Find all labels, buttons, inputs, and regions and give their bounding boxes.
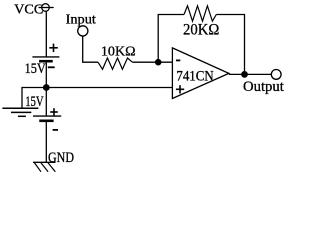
op-amp U1 741CN triangle (172, 48, 229, 99)
earth ground (2, 108, 38, 116)
chassis ground GND (33, 150, 74, 172)
Output terminal circle (271, 70, 281, 80)
svg-text:741CN: 741CN (176, 68, 213, 84)
Output label (243, 79, 284, 95)
wire VCC to battery V1 (45, 11, 47, 56)
resistor R2 20KΩ zigzag (183, 6, 219, 39)
wire battery V1 to node A (45, 62, 47, 87)
battery V2 (15V) (25, 94, 61, 130)
wire R1 to node B (132, 61, 172, 63)
Input terminal circle (78, 26, 88, 36)
node B junction dot (155, 59, 162, 66)
svg-text:VCC: VCC (14, 1, 43, 16)
Input label (66, 12, 97, 27)
node C junction dot (241, 71, 248, 78)
wire feedback top right (216, 15, 244, 75)
wire node A to earth ground branch (22, 88, 46, 109)
svg-text:GND: GND (48, 150, 74, 166)
wire feedback top left (158, 14, 184, 16)
svg-text:20KΩ: 20KΩ (183, 22, 219, 39)
svg-text:10KΩ: 10KΩ (101, 44, 136, 59)
wire Input to resistor R1 (83, 36, 98, 62)
wire node B up to feedback (157, 15, 159, 63)
resistor R1 10KΩ zigzag (98, 44, 136, 69)
wire non-inverting input (46, 87, 172, 89)
svg-text:15V: 15V (25, 61, 46, 77)
wire node A to battery V2 (45, 88, 47, 116)
battery V1 (15V) (25, 44, 60, 78)
svg-text:15V: 15V (25, 94, 44, 110)
VCC terminal symbol (39, 4, 54, 12)
node A junction dot (43, 84, 50, 91)
svg-text:Input: Input (66, 12, 97, 27)
wire op-amp output to node C (229, 73, 271, 75)
power net VCC label (14, 1, 43, 16)
svg-text:Output: Output (243, 79, 284, 95)
wire battery V2 to ground (45, 122, 47, 162)
